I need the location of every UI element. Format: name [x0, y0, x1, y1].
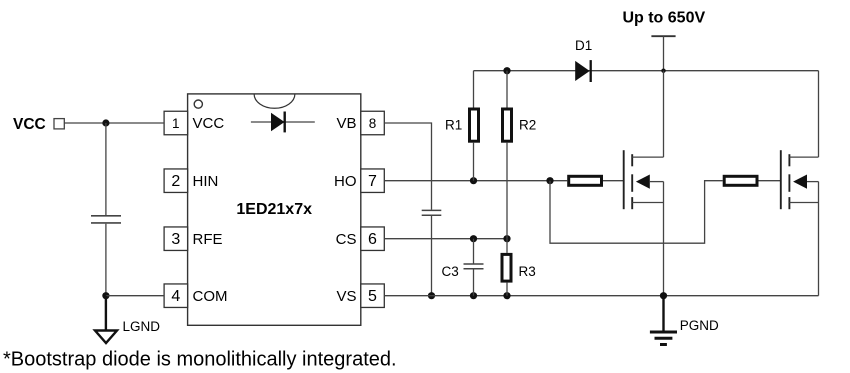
resistor R1: [470, 71, 479, 181]
svg-text:PGND: PGND: [680, 318, 719, 333]
wire gate feed to Q2: [550, 181, 723, 244]
capacitor C1 (VCC decoupling): [91, 216, 121, 223]
svg-text:8: 8: [369, 116, 377, 131]
gate resistor RG1: [569, 176, 624, 185]
IC pin-1 indicator circle: [194, 100, 202, 108]
VCC input terminal square: [54, 119, 64, 129]
pin 1 box: [164, 111, 188, 135]
wire supply bar down to HV rail: [663, 36, 665, 70]
junction dot R1 / HO: [470, 177, 477, 184]
junction dot supply / rail: [661, 69, 665, 73]
svg-text:5: 5: [368, 288, 377, 305]
wire COM node to pin 4: [106, 295, 164, 297]
wire pin 5 VS rail: [384, 295, 818, 297]
gate resistor RG2: [724, 176, 781, 185]
junction dot VCC / C1 top: [102, 119, 109, 126]
wire pin 6 CS line: [384, 238, 507, 240]
pin 7 box: [361, 169, 385, 193]
junction dot C3 bottom / VS: [470, 292, 477, 299]
pin 2 box: [164, 169, 188, 193]
svg-text:1ED21x7x: 1ED21x7x: [236, 201, 312, 218]
ground LGND: [95, 296, 117, 343]
junction dot bootstrap cap / VS: [428, 292, 435, 299]
svg-text:VB: VB: [336, 115, 356, 132]
capacitor C2 (bootstrap): [422, 210, 442, 215]
svg-text:3: 3: [171, 231, 180, 248]
junction dot R3 bottom / VS: [503, 292, 510, 299]
svg-text:D1: D1: [575, 38, 592, 53]
wire HV rail horizontal: [474, 70, 819, 72]
svg-text:VCC: VCC: [13, 116, 46, 133]
svg-text:LGND: LGND: [123, 319, 161, 334]
svg-text:COM: COM: [193, 288, 228, 305]
junction dot PGND / VS: [660, 292, 667, 299]
capacitor C3: [464, 239, 484, 296]
wire pin 8 VB to bootstrap capacitor column: [384, 123, 431, 210]
svg-text:VS: VS: [336, 288, 356, 305]
supply rail terminal bar: [651, 35, 675, 37]
resistor R3: [502, 239, 511, 296]
bootstrap diode inside IC: [251, 112, 315, 133]
pin 3 box: [164, 227, 188, 251]
wire VCC terminal to pin 1: [64, 122, 164, 124]
transistor Q1 (high-side MOSFET): [624, 71, 664, 296]
transistor Q2 (parallel MOSFET): [781, 71, 819, 296]
svg-text:RFE: RFE: [193, 231, 223, 248]
pin 4 box: [164, 284, 188, 308]
junction dot COM / LGND: [102, 292, 109, 299]
svg-text:7: 7: [368, 173, 377, 190]
svg-text:HIN: HIN: [193, 173, 219, 190]
svg-text:VCC: VCC: [193, 115, 225, 132]
junction dot C3 top: [470, 235, 477, 242]
svg-text:CS: CS: [336, 231, 357, 248]
svg-text:1: 1: [172, 116, 180, 131]
svg-text:4: 4: [171, 288, 180, 305]
junction dot R3 top / R2 bottom: [503, 235, 510, 242]
pin 5 box: [361, 284, 385, 308]
wire pin 7 HO to gate resistors: [384, 180, 567, 182]
wire bootstrap capacitor bottom to VS line: [431, 216, 433, 296]
resistor R2: [503, 71, 512, 239]
wire VCC node down to capacitor C1: [105, 123, 107, 215]
svg-text:C3: C3: [442, 264, 459, 279]
diode D1: [575, 60, 591, 82]
junction dot R2 top / rail: [503, 67, 510, 74]
svg-text:HO: HO: [334, 173, 357, 190]
pin 8 box: [361, 111, 385, 135]
svg-text:6: 6: [368, 231, 377, 248]
svg-text:*Bootstrap diode is monolithic: *Bootstrap diode is monolithically integ…: [3, 349, 397, 371]
IC U1 body 1ED21x7x: [188, 94, 361, 325]
svg-text:Up to 650V: Up to 650V: [622, 10, 705, 27]
pin 6 box: [361, 227, 385, 251]
junction dot HO gate feed: [546, 177, 553, 184]
svg-text:R1: R1: [445, 118, 462, 133]
svg-text:R2: R2: [519, 118, 536, 133]
ground PGND: [650, 296, 677, 345]
svg-text:R3: R3: [519, 264, 536, 279]
wire capacitor C1 bottom to COM node: [105, 224, 107, 296]
svg-text:2: 2: [171, 173, 180, 190]
